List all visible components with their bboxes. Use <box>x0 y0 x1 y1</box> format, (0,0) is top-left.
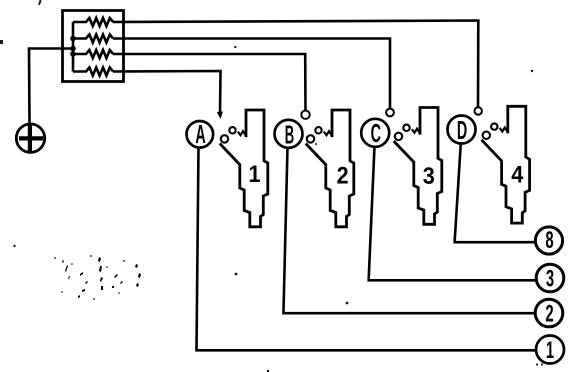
svg-text:2: 2 <box>545 301 553 327</box>
connector label B <box>275 120 303 150</box>
svg-text:D: D <box>457 117 467 146</box>
pin circle 3 <box>536 264 564 292</box>
resistor R3 <box>73 50 113 58</box>
wire B to pin 2 <box>284 148 536 314</box>
wire A to pin 1 <box>197 147 537 350</box>
svg-text:8: 8 <box>545 228 553 254</box>
injector 2 <box>306 110 354 227</box>
resistor R2 <box>73 35 113 43</box>
svg-text:C: C <box>371 120 381 149</box>
resistor R4 <box>73 68 113 76</box>
arrow tip at injector 1 <box>217 112 223 120</box>
terminal open circle C <box>386 109 394 117</box>
svg-text:A: A <box>195 121 205 150</box>
terminal open circle B <box>301 111 309 119</box>
wire R1 to injector 4 drop <box>113 21 478 108</box>
svg-text:1: 1 <box>546 338 554 364</box>
svg-text:3: 3 <box>546 266 554 292</box>
svg-text:3: 3 <box>423 162 435 189</box>
connector label C <box>361 119 389 148</box>
pin circle 1 <box>536 336 564 365</box>
junction dot R3 <box>70 51 76 57</box>
wire C to pin 3 <box>369 147 536 281</box>
resistor box <box>63 11 124 82</box>
injector 3 <box>394 108 442 225</box>
connector label A <box>187 121 214 150</box>
svg-text:4: 4 <box>511 160 523 187</box>
battery positive terminal <box>16 124 44 152</box>
junction dot supply <box>70 46 76 52</box>
terminal open circle D <box>475 107 482 114</box>
svg-text:B: B <box>285 121 294 150</box>
junction dot R2 <box>70 36 76 42</box>
wire R2 to injector 3 drop <box>113 39 390 109</box>
wire D to pin 8 <box>455 143 536 242</box>
connector label D <box>448 116 476 146</box>
injector 4 <box>482 106 530 223</box>
pin circle 8 <box>535 227 562 254</box>
pin circle 2 <box>535 299 563 327</box>
svg-text:1: 1 <box>248 160 260 187</box>
svg-text:2: 2 <box>337 161 349 188</box>
bus bar node <box>72 22 75 72</box>
wire R4 to injector 1 drop <box>113 71 221 113</box>
injector 1 <box>220 110 268 227</box>
resistor R1 <box>73 18 113 26</box>
wire battery to bus <box>29 49 73 124</box>
wire R3 to injector 2 drop <box>113 54 306 110</box>
